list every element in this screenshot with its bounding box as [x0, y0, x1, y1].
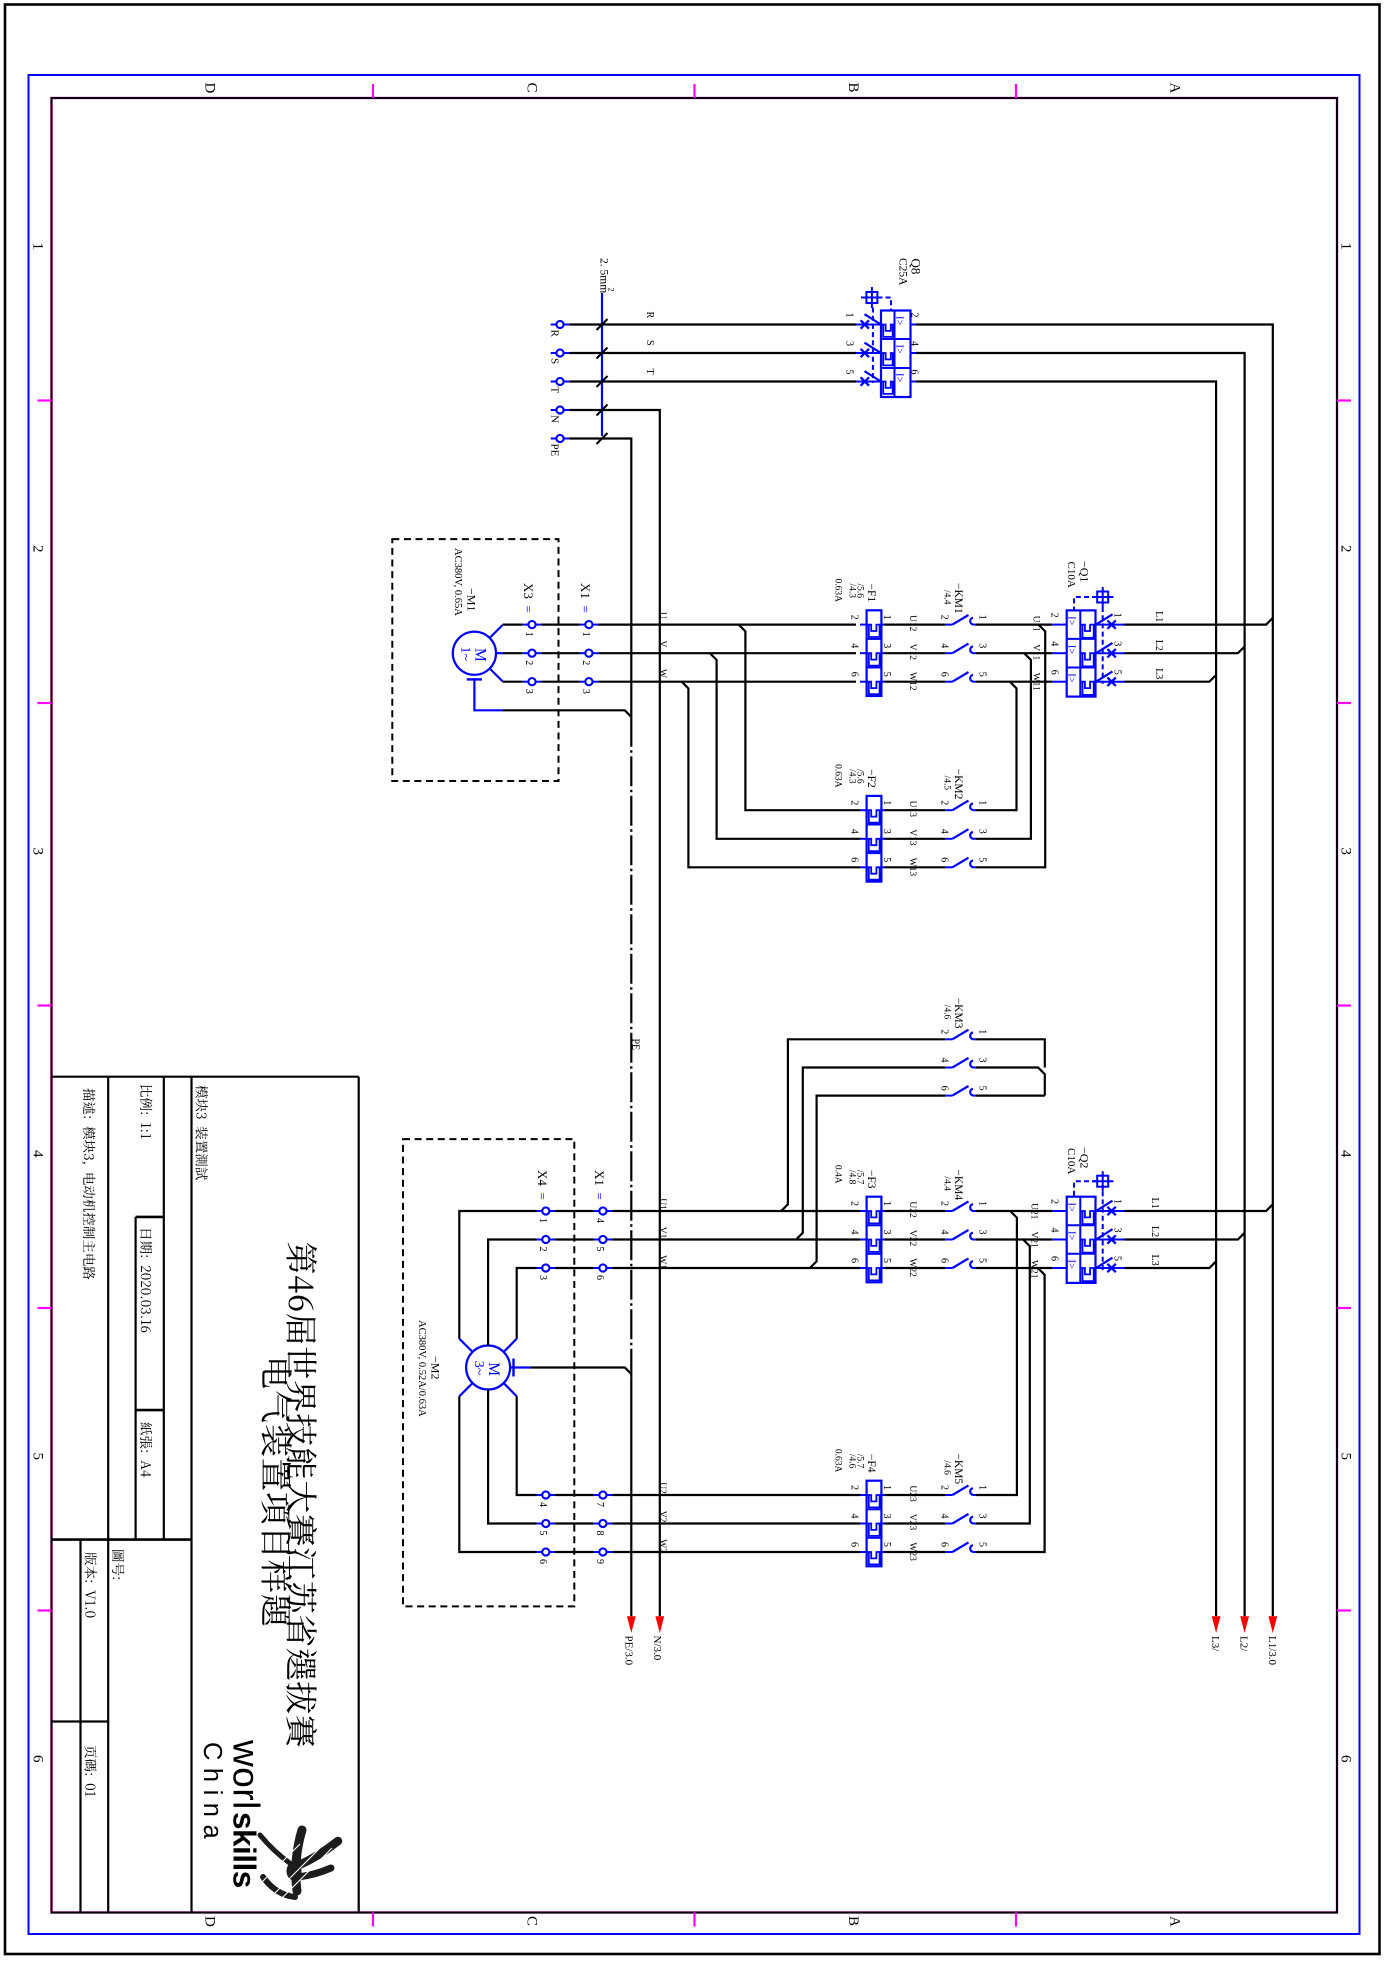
svg-text:5: 5	[30, 1453, 46, 1461]
svg-text:4: 4	[849, 1230, 860, 1235]
svg-text:2: 2	[849, 800, 860, 805]
svg-text:1: 1	[977, 615, 988, 620]
svg-text:B: B	[845, 83, 861, 93]
svg-text:2: 2	[1049, 1199, 1060, 1204]
svg-text:/4.8: /4.8	[847, 1170, 857, 1185]
svg-text:5: 5	[977, 1542, 988, 1547]
svg-text:U13: U13	[907, 801, 917, 818]
svg-text:/4.4: /4.4	[942, 1176, 952, 1191]
svg-text:5: 5	[881, 672, 892, 677]
svg-text:V11: V11	[1031, 644, 1041, 660]
svg-text:1: 1	[881, 1485, 892, 1490]
svg-text:1~: 1~	[458, 647, 473, 662]
svg-text:6: 6	[849, 1258, 860, 1263]
svg-text:2: 2	[1338, 545, 1354, 553]
svg-text:I>: I>	[894, 373, 905, 382]
svg-text:5: 5	[881, 857, 892, 862]
svg-text:−M2: −M2	[429, 1356, 443, 1379]
svg-text:6: 6	[849, 1542, 860, 1547]
svg-text:A: A	[1167, 83, 1183, 94]
svg-text:/4.4: /4.4	[942, 590, 952, 605]
svg-text:2: 2	[939, 1029, 950, 1034]
svg-text:1: 1	[977, 1485, 988, 1490]
svg-text:A: A	[1167, 1916, 1183, 1927]
svg-text:5: 5	[537, 1531, 548, 1536]
svg-text:3: 3	[844, 341, 855, 346]
svg-text:3: 3	[977, 1230, 988, 1235]
svg-text:Q8: Q8	[909, 259, 924, 275]
svg-text:=: =	[521, 606, 536, 613]
svg-text:1: 1	[881, 800, 892, 805]
svg-text:4: 4	[939, 1514, 950, 1519]
svg-text:6: 6	[594, 1275, 605, 1280]
svg-text:I>: I>	[1066, 616, 1077, 625]
svg-text:W12: W12	[907, 672, 917, 691]
svg-text:2: 2	[939, 615, 950, 620]
svg-text:−KM3: −KM3	[952, 998, 964, 1029]
svg-text:3: 3	[1112, 1228, 1123, 1233]
svg-text:5: 5	[1112, 670, 1123, 675]
svg-text:2: 2	[580, 660, 591, 665]
svg-text:9: 9	[594, 1559, 605, 1564]
svg-text:D: D	[202, 1916, 218, 1927]
svg-text:5: 5	[977, 857, 988, 862]
svg-text:I>: I>	[1066, 673, 1077, 682]
svg-text:7: 7	[594, 1502, 605, 1507]
svg-text:3: 3	[977, 829, 988, 834]
svg-text:4: 4	[1049, 641, 1060, 646]
svg-text:C: C	[524, 83, 540, 93]
svg-text:4: 4	[939, 829, 950, 834]
svg-text:−KM5: −KM5	[952, 1453, 964, 1484]
svg-text:1: 1	[1112, 1199, 1123, 1204]
svg-text:2: 2	[1049, 613, 1060, 618]
svg-text:I>: I>	[1066, 1203, 1077, 1212]
svg-text:4: 4	[1338, 1150, 1354, 1158]
svg-text:3: 3	[977, 643, 988, 648]
svg-text:L2/: L2/	[1238, 1636, 1250, 1652]
svg-text:−M1: −M1	[465, 588, 479, 611]
svg-text:L1: L1	[1153, 611, 1164, 622]
svg-text:4: 4	[849, 829, 860, 834]
svg-text:R: R	[644, 312, 655, 319]
svg-text:6: 6	[939, 1542, 950, 1547]
svg-text:0.63A: 0.63A	[833, 764, 843, 788]
svg-text:C10A: C10A	[1065, 562, 1077, 588]
svg-text:1: 1	[580, 632, 591, 637]
svg-text:I>: I>	[894, 316, 905, 325]
svg-text:U21: U21	[1029, 1203, 1039, 1220]
svg-text:3: 3	[580, 689, 591, 694]
svg-text:B: B	[845, 1916, 861, 1926]
svg-text:5: 5	[1112, 1256, 1123, 1261]
svg-text:=: =	[535, 1193, 550, 1200]
svg-text:6: 6	[939, 672, 950, 677]
svg-text:I>: I>	[1066, 1231, 1077, 1240]
svg-text:2: 2	[849, 615, 860, 620]
svg-text:5: 5	[1338, 1453, 1354, 1461]
svg-text:2: 2	[30, 545, 46, 553]
svg-text:2: 2	[849, 1201, 860, 1206]
svg-text:V1: V1	[657, 1227, 667, 1239]
svg-text:2: 2	[939, 1485, 950, 1490]
svg-text:8: 8	[594, 1531, 605, 1536]
svg-text:V: V	[657, 641, 667, 648]
svg-text:C10A: C10A	[1065, 1148, 1077, 1174]
svg-text:6: 6	[909, 370, 920, 375]
svg-text:3: 3	[1112, 641, 1123, 646]
svg-text:5: 5	[977, 1258, 988, 1263]
svg-text:−F4: −F4	[865, 1454, 877, 1473]
svg-text:R: R	[549, 330, 561, 338]
svg-text:U: U	[657, 612, 667, 619]
svg-text:/4.3: /4.3	[847, 769, 857, 784]
svg-text:T: T	[549, 387, 561, 394]
svg-text:V12: V12	[907, 644, 917, 661]
svg-text:L1/3.0: L1/3.0	[1266, 1636, 1278, 1666]
svg-text:1: 1	[30, 243, 46, 251]
svg-text:4: 4	[849, 1514, 860, 1519]
svg-text:M: M	[485, 1362, 502, 1376]
svg-text:/4.6: /4.6	[942, 1460, 952, 1475]
svg-text:6: 6	[1049, 1256, 1060, 1261]
svg-text:V13: V13	[907, 829, 917, 846]
svg-text:/4.6: /4.6	[942, 1005, 952, 1020]
svg-text:N/3.0: N/3.0	[651, 1636, 663, 1661]
svg-text:5: 5	[881, 1258, 892, 1263]
svg-text:0.63A: 0.63A	[833, 1449, 843, 1473]
svg-text:1: 1	[537, 1218, 548, 1223]
svg-text:−KM2: −KM2	[952, 769, 964, 800]
svg-text:T: T	[644, 369, 655, 375]
svg-text:0.63A: 0.63A	[833, 579, 843, 603]
svg-text:worl: worl	[226, 1739, 267, 1810]
svg-text:1: 1	[977, 1201, 988, 1206]
svg-text:1: 1	[881, 615, 892, 620]
svg-text:3: 3	[1338, 848, 1354, 856]
svg-text:China: China	[198, 1742, 226, 1846]
svg-text:skills: skills	[227, 1812, 263, 1888]
svg-text:2: 2	[939, 1201, 950, 1206]
svg-text:W: W	[657, 669, 667, 678]
svg-text:I>: I>	[894, 345, 905, 354]
svg-text:=: =	[592, 1193, 607, 1200]
svg-text:V22: V22	[907, 1230, 917, 1247]
svg-text:4: 4	[939, 643, 950, 648]
svg-text:2: 2	[909, 313, 920, 318]
svg-text:3: 3	[881, 1230, 892, 1235]
svg-text:5: 5	[977, 672, 988, 677]
svg-text:I>: I>	[1066, 645, 1077, 654]
svg-text:=: =	[578, 606, 593, 613]
svg-text:3: 3	[30, 848, 46, 856]
svg-text:1: 1	[1338, 243, 1354, 251]
svg-text:1: 1	[977, 800, 988, 805]
svg-text:X3: X3	[521, 583, 536, 599]
svg-text:/4.5: /4.5	[942, 776, 952, 791]
svg-text:AC380V, 0.52A/0.63A: AC380V, 0.52A/0.63A	[416, 1320, 427, 1417]
svg-text:6: 6	[30, 1755, 46, 1763]
svg-text:3: 3	[977, 1514, 988, 1519]
svg-text:−Q2: −Q2	[1078, 1147, 1092, 1168]
svg-text:C: C	[524, 1916, 540, 1926]
svg-text:4: 4	[909, 341, 920, 346]
svg-text:1: 1	[844, 313, 855, 318]
svg-text:L3/: L3/	[1209, 1636, 1221, 1652]
svg-text:N: N	[549, 415, 561, 423]
svg-text:5: 5	[977, 1086, 988, 1091]
svg-text:U2: U2	[657, 1482, 667, 1494]
svg-text:M: M	[472, 648, 489, 662]
svg-text:U1: U1	[657, 1198, 667, 1210]
svg-text:4: 4	[537, 1502, 548, 1507]
svg-text:5: 5	[881, 1542, 892, 1547]
svg-text:W13: W13	[907, 858, 917, 877]
svg-text:5: 5	[844, 370, 855, 375]
svg-text:L2: L2	[1149, 1226, 1160, 1237]
svg-text:U12: U12	[907, 615, 917, 632]
svg-text:3: 3	[977, 1058, 988, 1063]
svg-text:6: 6	[939, 1258, 950, 1263]
svg-text:/4.3: /4.3	[847, 584, 857, 599]
svg-text:−F1: −F1	[865, 584, 877, 603]
svg-text:3: 3	[881, 1514, 892, 1519]
svg-text:2: 2	[939, 800, 950, 805]
svg-text:6: 6	[849, 672, 860, 677]
svg-text:X1: X1	[578, 583, 593, 599]
svg-text:X4: X4	[535, 1170, 550, 1186]
svg-text:S: S	[644, 340, 655, 346]
svg-text:I>: I>	[1066, 1260, 1077, 1269]
svg-text:W2: W2	[657, 1539, 667, 1553]
svg-text:V23: V23	[907, 1514, 917, 1531]
svg-text:4: 4	[849, 643, 860, 648]
svg-text:2: 2	[849, 1485, 860, 1490]
svg-text:AC380V, 0.65A: AC380V, 0.65A	[452, 548, 463, 616]
svg-text:C25A: C25A	[897, 258, 909, 286]
svg-text:S: S	[549, 358, 561, 364]
svg-text:0.4A: 0.4A	[833, 1165, 843, 1184]
svg-text:6: 6	[939, 857, 950, 862]
svg-text:PE: PE	[549, 444, 561, 457]
svg-text:1: 1	[881, 1201, 892, 1206]
svg-text:2: 2	[607, 288, 616, 292]
svg-text:4: 4	[1049, 1228, 1060, 1233]
svg-text:U11: U11	[1031, 616, 1041, 632]
svg-text:−KM4: −KM4	[952, 1169, 964, 1200]
svg-text:X1: X1	[592, 1170, 607, 1186]
svg-text:L1: L1	[1149, 1198, 1160, 1209]
svg-text:5: 5	[594, 1247, 605, 1252]
svg-text:4: 4	[30, 1150, 46, 1158]
svg-text:4: 4	[594, 1218, 605, 1223]
svg-text:/4.6: /4.6	[847, 1454, 857, 1469]
svg-text:PE/3.0: PE/3.0	[623, 1636, 635, 1666]
svg-text:−F2: −F2	[865, 769, 877, 788]
svg-text:6: 6	[849, 857, 860, 862]
svg-text:3: 3	[881, 643, 892, 648]
svg-text:D: D	[202, 83, 218, 94]
svg-text:6: 6	[537, 1559, 548, 1564]
svg-text:W23: W23	[907, 1542, 917, 1561]
svg-text:W22: W22	[907, 1258, 917, 1277]
svg-text:2: 2	[523, 660, 534, 665]
svg-text:L3: L3	[1149, 1255, 1160, 1266]
svg-text:3~: 3~	[471, 1361, 486, 1376]
svg-text:3: 3	[523, 689, 534, 694]
svg-text:6: 6	[1338, 1755, 1354, 1763]
svg-text:W1: W1	[657, 1255, 667, 1269]
svg-text:1: 1	[977, 1029, 988, 1034]
svg-text:L2: L2	[1153, 640, 1164, 651]
svg-text:L3: L3	[1153, 668, 1164, 679]
svg-text:−Q1: −Q1	[1078, 561, 1092, 582]
svg-text:2: 2	[537, 1247, 548, 1252]
svg-text:V2: V2	[657, 1511, 667, 1523]
svg-text:3: 3	[537, 1275, 548, 1280]
svg-text:1: 1	[1112, 613, 1123, 618]
svg-text:1: 1	[523, 632, 534, 637]
svg-text:4: 4	[939, 1058, 950, 1063]
svg-text:6: 6	[939, 1086, 950, 1091]
svg-text:−KM1: −KM1	[952, 583, 964, 614]
svg-text:3: 3	[881, 829, 892, 834]
svg-text:U23: U23	[907, 1485, 917, 1502]
svg-text:6: 6	[1049, 670, 1060, 675]
svg-text:−F3: −F3	[865, 1170, 877, 1189]
svg-text:PE: PE	[630, 1039, 641, 1051]
svg-text:4: 4	[939, 1230, 950, 1235]
svg-text:U22: U22	[907, 1201, 917, 1218]
